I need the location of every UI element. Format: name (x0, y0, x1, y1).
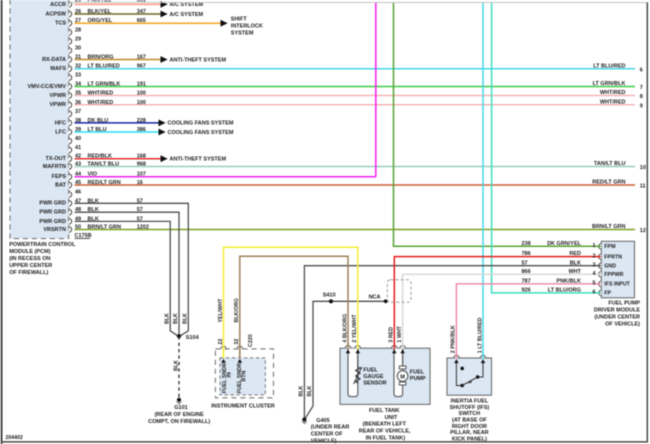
svg-text:RIGHT DOOR: RIGHT DOOR (452, 424, 487, 430)
svg-text:10: 10 (640, 165, 646, 171)
svg-text:RED/LT GRN: RED/LT GRN (592, 180, 625, 186)
svg-text:40: 40 (75, 136, 81, 142)
svg-text:2: 2 (592, 253, 595, 259)
svg-text:ANTI-THEFT SYSTEM: ANTI-THEFT SYSTEM (170, 57, 227, 63)
svg-text:5: 5 (592, 281, 595, 287)
svg-text:BLK: BLK (173, 313, 179, 324)
svg-text:6: 6 (640, 67, 643, 73)
svg-text:FUEL TANK: FUEL TANK (369, 408, 400, 414)
svg-text:3: 3 (592, 263, 595, 269)
svg-text:37: 37 (75, 109, 81, 115)
svg-text:238: 238 (522, 241, 531, 247)
svg-text:SYSTEM: SYSTEM (231, 30, 254, 36)
svg-text:787: 787 (522, 279, 531, 285)
svg-text:OF FIREWALL): OF FIREWALL) (9, 270, 48, 276)
svg-text:(UNDER REAR: (UNDER REAR (311, 425, 350, 431)
svg-text:41: 41 (75, 145, 81, 151)
svg-text:1 WHT: 1 WHT (397, 325, 403, 342)
svg-text:CENTER OF: CENTER OF (311, 432, 343, 438)
svg-text:32: 32 (234, 339, 240, 345)
svg-text:PNK/YEL: PNK/YEL (88, 0, 112, 4)
svg-text:FP: FP (604, 291, 611, 297)
svg-text:SENSOR: SENSOR (363, 380, 386, 386)
svg-text:12: 12 (640, 228, 646, 234)
svg-text:M: M (400, 375, 405, 381)
svg-text:30: 30 (75, 45, 81, 51)
svg-text:GND: GND (604, 263, 616, 269)
svg-text:ANTI-THEFT SYSTEM: ANTI-THEFT SYSTEM (170, 157, 227, 163)
svg-text:FUEL: FUEL (363, 367, 378, 373)
svg-text:PWR GRD: PWR GRD (39, 219, 66, 225)
svg-text:25: 25 (75, 0, 81, 4)
svg-text:926: 926 (522, 288, 531, 294)
svg-text:IN FUEL TANK): IN FUEL TANK) (366, 436, 406, 442)
svg-text:BLK: BLK (299, 385, 305, 396)
svg-text:361: 361 (137, 0, 146, 4)
svg-text:BLK/ORG: BLK/ORG (234, 298, 240, 322)
svg-text:IN: IN (227, 372, 233, 377)
svg-text:7: 7 (640, 85, 643, 91)
svg-text:FUEL: FUEL (410, 370, 425, 376)
svg-text:INERTIA FUEL: INERTIA FUEL (451, 398, 489, 404)
svg-text:3 RED: 3 RED (389, 327, 395, 343)
svg-text:FPPWR: FPPWR (604, 272, 623, 278)
svg-text:6: 6 (592, 290, 595, 296)
svg-text:ACCR: ACCR (50, 2, 66, 8)
svg-text:IFS INPUT: IFS INPUT (604, 282, 630, 288)
svg-text:786: 786 (522, 251, 531, 257)
svg-text:33: 33 (75, 73, 81, 79)
svg-text:TCS: TCS (55, 21, 66, 27)
svg-text:FUEL PUMP: FUEL PUMP (608, 301, 640, 307)
svg-text:BRN/LT GRN: BRN/LT GRN (592, 224, 626, 230)
svg-text:11: 11 (640, 184, 646, 190)
svg-text:(IN RECESS ON: (IN RECESS ON (9, 256, 50, 262)
svg-text:22: 22 (218, 339, 224, 345)
svg-text:BLK: BLK (307, 385, 313, 396)
svg-text:DK GRN/YEL: DK GRN/YEL (547, 241, 582, 247)
svg-text:2 YEL/WHT: 2 YEL/WHT (352, 314, 358, 343)
svg-text:TX-OUT: TX-OUT (46, 156, 67, 162)
svg-text:BLK: BLK (173, 360, 179, 371)
svg-text:(UNDER CENTER: (UNDER CENTER (594, 315, 640, 321)
svg-text:BLK: BLK (182, 313, 188, 324)
svg-text:UPPER CENTER: UPPER CENTER (9, 263, 52, 269)
svg-text:A/C SYSTEM: A/C SYSTEM (170, 12, 204, 18)
svg-text:VRSRTN: VRSRTN (43, 227, 66, 233)
svg-text:HFC: HFC (55, 120, 66, 126)
svg-text:WHT: WHT (568, 269, 581, 275)
svg-text:REAR OF VEHICLE,: REAR OF VEHICLE, (359, 429, 411, 435)
svg-text:866: 866 (522, 269, 531, 275)
svg-text:MODULE (PCM): MODULE (PCM) (9, 249, 50, 255)
svg-text:POWERTRAIN CONTROL: POWERTRAIN CONTROL (9, 242, 76, 248)
svg-text:LT GRN/BLK: LT GRN/BLK (593, 81, 626, 87)
svg-text:4 BLK/ORG: 4 BLK/ORG (342, 314, 348, 343)
svg-text:BLK: BLK (570, 260, 581, 266)
svg-text:C220: C220 (248, 334, 254, 347)
svg-text:VMV-CC/EVMV: VMV-CC/EVMV (27, 84, 66, 90)
svg-text:RED: RED (569, 251, 581, 257)
svg-text:PNK/BLK: PNK/BLK (557, 279, 581, 285)
svg-text:NCA: NCA (369, 295, 381, 301)
svg-text:YEL/WHT: YEL/WHT (218, 298, 224, 323)
svg-text:COOLING FANS SYSTEM: COOLING FANS SYSTEM (168, 121, 234, 127)
svg-text:PILLAR, NEAR: PILLAR, NEAR (450, 430, 489, 436)
svg-text:8: 8 (640, 94, 643, 100)
svg-text:9: 9 (640, 103, 643, 109)
svg-text:SHIFT: SHIFT (231, 17, 248, 23)
svg-text:PUMP: PUMP (410, 376, 426, 382)
svg-text:2 PNK/BLK: 2 PNK/BLK (451, 325, 457, 353)
svg-text:BLK: BLK (164, 313, 170, 324)
svg-text:LFC: LFC (55, 129, 66, 135)
svg-text:COMPT, ON FIREWALL): COMPT, ON FIREWALL) (148, 419, 210, 425)
svg-text:MAFRTN: MAFRTN (43, 164, 66, 170)
svg-text:PWR GRD: PWR GRD (39, 201, 66, 207)
svg-text:UNIT: UNIT (385, 415, 398, 421)
svg-text:1 LT BLU/RED: 1 LT BLU/RED (477, 318, 483, 354)
svg-text:FPRTN: FPRTN (604, 254, 622, 260)
svg-text:46: 46 (75, 190, 81, 196)
svg-text:DRIVER MODULE: DRIVER MODULE (594, 308, 640, 314)
svg-text:ACPSW: ACPSW (46, 11, 67, 17)
svg-text:SWITCH: SWITCH (459, 411, 481, 417)
svg-text:RX-DATA: RX-DATA (42, 57, 66, 63)
svg-text:PWR GRD: PWR GRD (39, 210, 66, 216)
svg-text:G405: G405 (316, 418, 329, 424)
svg-text:LT BLU/RED: LT BLU/RED (593, 63, 625, 69)
svg-text:INTERLOCK: INTERLOCK (231, 23, 263, 29)
svg-text:(BENEATH LEFT: (BENEATH LEFT (363, 422, 407, 428)
svg-text:OF VEHICLE): OF VEHICLE) (605, 321, 640, 327)
svg-text:SHUTOFF (IFS): SHUTOFF (IFS) (450, 405, 490, 411)
svg-text:LT BLU/ORG: LT BLU/ORG (548, 288, 581, 294)
svg-text:S410: S410 (323, 292, 336, 298)
svg-text:WHT/RED: WHT/RED (600, 99, 626, 105)
svg-text:COOLING FANS SYSTEM: COOLING FANS SYSTEM (168, 130, 234, 136)
svg-text:57: 57 (522, 260, 528, 266)
svg-text:204402: 204402 (6, 435, 23, 441)
svg-text:INSTRUMENT CLUSTER: INSTRUMENT CLUSTER (211, 404, 275, 410)
svg-text:29: 29 (75, 36, 81, 42)
svg-text:FEPS: FEPS (52, 174, 67, 180)
svg-text:VPWR: VPWR (50, 93, 67, 99)
svg-text:GAUGE: GAUGE (363, 374, 384, 380)
svg-text:(REAR OF ENGINE: (REAR OF ENGINE (155, 412, 205, 418)
svg-text:MAFS: MAFS (50, 66, 66, 72)
svg-text:A/C SYSTEM: A/C SYSTEM (170, 2, 204, 8)
svg-text:WHT/RED: WHT/RED (600, 90, 626, 96)
svg-text:G101: G101 (174, 405, 187, 411)
svg-text:(AT BASE OF: (AT BASE OF (452, 417, 487, 423)
svg-text:BAT: BAT (55, 182, 67, 188)
svg-text:1: 1 (592, 243, 595, 249)
svg-text:TAN/LT BLU: TAN/LT BLU (594, 161, 626, 167)
svg-text:RTN: RTN (241, 370, 247, 381)
svg-text:S104: S104 (186, 335, 200, 341)
svg-text:FPM: FPM (604, 244, 616, 250)
svg-text:VPWR: VPWR (50, 102, 67, 108)
svg-text:28: 28 (75, 27, 81, 33)
